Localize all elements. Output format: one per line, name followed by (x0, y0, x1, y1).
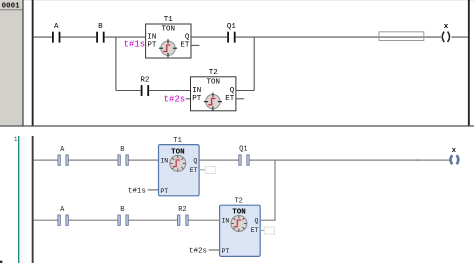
svg-text:A: A (54, 23, 59, 31)
wire B to R2 (rung 2) (128, 219, 177, 221)
svg-text:T2: T2 (209, 69, 218, 77)
wire rail to contact A (network rung 1) (34, 159, 58, 161)
T1 ET stub and empty operand box (199, 167, 215, 174)
wire B to timer T1 IN (105, 36, 146, 38)
wire Q1 to coil (bottom) (249, 159, 449, 161)
timer icon inside T2 (204, 93, 222, 111)
branch wire down to second sub-rung (116, 37, 141, 90)
network number 1 (14, 136, 18, 143)
svg-text:ET: ET (251, 227, 259, 234)
svg-text:PT: PT (160, 188, 168, 195)
svg-text:IN: IN (222, 218, 230, 225)
wire rail to contact A (network rung 2) (34, 219, 58, 221)
svg-text:PT: PT (192, 95, 202, 103)
svg-text:B: B (120, 206, 124, 214)
contact A (rung 1) (58, 146, 68, 165)
svg-text:T1: T1 (173, 137, 181, 145)
svg-text:Q: Q (230, 87, 235, 95)
contact A (top rung) (52, 23, 60, 43)
value label t#1s on bottom T1.PT (128, 187, 159, 195)
wire Q1 to coil x (236, 36, 441, 38)
svg-text:x: x (444, 23, 449, 31)
teal margin line (18, 136, 19, 263)
value label t#2s on bottom T2.PT (189, 248, 220, 256)
timer icon inside bottom T2 (231, 216, 247, 232)
svg-text:T1: T1 (164, 16, 174, 24)
wire A to B (rung 2) (68, 219, 118, 221)
left power rail (bottom panel) (32, 136, 34, 263)
svg-text:Q: Q (185, 34, 190, 42)
timer T1 (TON function block, top panel) (146, 16, 191, 58)
wire B to T1 block (128, 159, 158, 161)
timer T1 (TON function block, bottom panel) (159, 137, 200, 196)
wire T1.Q to contact Q1 (191, 36, 227, 38)
svg-text:B: B (120, 146, 124, 154)
svg-text:IN: IN (160, 157, 168, 164)
bottom-left corner mark (0, 261, 2, 263)
value label t#1s on T1.PT (124, 40, 146, 50)
riser wire from T2.Q up to rung 1 (274, 160, 276, 221)
svg-text:ET: ET (225, 95, 235, 103)
wire R2 to timer T2 IN (149, 90, 190, 92)
wire T1.Q to contact Q1 (bottom) (199, 159, 239, 161)
timer icon inside T1 (159, 39, 177, 57)
svg-text:R2: R2 (178, 206, 186, 214)
T2 ET stub and empty operand box (260, 227, 274, 234)
T1 ET output stub (191, 44, 199, 46)
contact B (rung 2) (118, 206, 128, 225)
left power rail (top panel) (32, 0, 34, 126)
timer T2 (TON function block, bottom panel) (220, 198, 261, 257)
rung number gutter 0001 (0, 0, 24, 127)
svg-text:ET: ET (190, 167, 198, 174)
svg-text:PT: PT (222, 248, 230, 255)
wire T2.Q to riser (260, 219, 275, 221)
coil x (top panel) (442, 23, 468, 42)
svg-text:Q: Q (193, 157, 197, 164)
timer icon inside bottom T1 (170, 155, 186, 171)
svg-text:R2: R2 (140, 77, 149, 85)
wire R2 to T2 block (188, 219, 219, 221)
light margin band (19, 136, 30, 263)
value label t#2s on T2.PT (164, 95, 191, 105)
svg-text:0001: 0001 (2, 3, 21, 11)
wire A to B (60, 36, 96, 38)
svg-text:1: 1 (14, 136, 18, 143)
timer T2 (TON function block, top panel) (191, 69, 236, 111)
empty placeholder box on rung (379, 32, 424, 41)
contact B (rung 1) (118, 146, 128, 165)
svg-text:Q1: Q1 (227, 23, 237, 31)
T2 ET output stub (236, 98, 244, 100)
contact B (top rung) (96, 23, 104, 43)
right power rail (top panel) (468, 0, 470, 126)
svg-text:TON: TON (162, 25, 176, 33)
svg-text:IN: IN (147, 34, 156, 42)
contact R2 (rung 2) (178, 206, 189, 225)
svg-text:Q1: Q1 (239, 145, 247, 153)
wire rail to contact A (34, 36, 52, 38)
wire A to B (rung 1) (68, 159, 118, 161)
svg-text:PT: PT (147, 41, 157, 49)
top panel bottom border (0, 125, 474, 126)
contact Q1 (top rung) (227, 23, 237, 43)
wire T2.Q up to main rung (236, 37, 254, 91)
svg-text:B: B (98, 23, 103, 31)
contact Q1 (bottom rung 1) (239, 145, 249, 165)
svg-text:T2: T2 (234, 198, 242, 206)
svg-text:t#1s: t#1s (124, 40, 146, 50)
contact A (rung 2) (58, 206, 68, 225)
junction dot on rung (417, 159, 419, 161)
coil x (bottom panel) (451, 147, 459, 164)
svg-text:TON: TON (206, 78, 220, 86)
svg-text:t#2s: t#2s (189, 248, 207, 256)
svg-text:IN: IN (192, 87, 201, 95)
contact R2 (top panel) (140, 77, 149, 96)
svg-text:t#1s: t#1s (128, 187, 146, 195)
svg-text:ET: ET (180, 41, 190, 49)
svg-text:t#2s: t#2s (164, 95, 186, 105)
svg-text:Q: Q (254, 218, 258, 225)
